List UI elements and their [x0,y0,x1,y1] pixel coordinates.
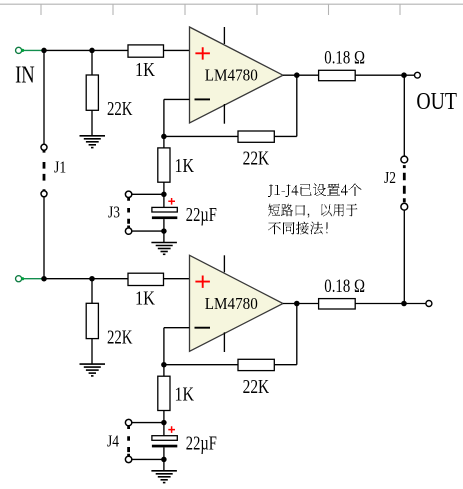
node op-amp output junction A [294,72,300,78]
svg-text:1K: 1K [135,287,155,309]
op-amp plus input marker (top) [195,47,210,59]
node cap bottom junction B [161,457,167,463]
svg-text:22K: 22K [243,376,270,398]
wire op-amp output to 0.18 ohm (bottom) [283,303,319,305]
wire cap node to ground (top) [163,231,165,242]
svg-text:22µF: 22µF [186,204,217,226]
wire feedback node to 1K (bottom) [163,365,165,377]
resistor 1K feedback-ground (top) [158,148,170,182]
jumper J2 top pin (open circle) [401,156,408,163]
svg-text:1K: 1K [135,59,155,81]
jumper J4 top pin (open circle) [125,419,131,425]
wire node INA to shunt node [44,49,92,51]
op-amp V+ power pin stub (top) [223,27,225,44]
capacitor 22uF polarity plus marker (bottom) [168,426,175,433]
op-amp LM4780 (bottom) body [190,255,284,351]
wire series resistor to op-amp +in (top) [164,49,190,51]
node shunt junction A [89,48,95,54]
resistor 22K feedback (top) [238,131,274,142]
wire feedback node to 1K (top) [163,136,165,148]
output terminal OUTB (open circle) [426,301,432,307]
output terminal OUTA (open circle) [415,72,421,78]
resistor 1K series input (bottom) [128,273,164,285]
wire feedback node to 22K feedback (top) [164,135,238,137]
resistor 22K input shunt (bottom) [86,303,98,338]
wire 0.18 ohm to output node (top) [355,74,404,76]
wire op-amp -in (bottom) [164,327,190,329]
wire shunt node to series resistor B [92,278,128,280]
ground symbol under input 22K (bottom) [80,364,106,376]
wire op-amp output to 0.18 ohm (top) [283,74,319,76]
wire cap to ground node (bottom) [163,447,165,459]
svg-text:0.18 Ω: 0.18 Ω [324,48,365,69]
wire -in down to feedback node (bottom) [163,328,165,365]
wire shunt node down to 22K (bottom) [91,279,93,304]
input terminal INA connection dot (green) [21,49,24,52]
node output junction OUTB [401,301,407,307]
svg-text:1K: 1K [175,383,195,405]
wire input terminal to node INA (green) [22,49,44,51]
capacitor 22uF negative plate (top) [152,216,177,219]
op-amp LM4780 (top) body [190,27,284,123]
wire -in down to feedback node (top) [163,99,165,136]
wire J4 bottom pin to ground node [132,458,162,460]
wire feedback riser to output node (bottom) [296,304,298,365]
svg-text:IN: IN [15,62,35,88]
svg-text:0.18 Ω: 0.18 Ω [324,276,365,297]
capacitor 22uF positive plate (top) [152,207,177,212]
jumper J1 top pin (open circle) [41,144,47,150]
capacitor 22uF positive plate (bottom) [152,436,177,441]
wire cap node to cap plate (top) [163,194,165,207]
node feedback junction A [161,134,167,140]
svg-text:J1: J1 [54,157,66,176]
node op-amp output junction B [294,301,300,307]
input terminal INB (green open circle) [16,276,22,282]
wire cap node to ground (bottom) [163,459,165,470]
ground symbol under input 22K (top) [80,136,106,148]
svg-text:1K: 1K [175,155,195,177]
wire 22K feedback to output riser (bottom) [274,364,297,366]
wire output node A down to J2 [403,75,405,156]
svg-text:J3: J3 [108,203,120,222]
svg-text:OUT: OUT [416,89,457,115]
op-amp V+ power pin stub (bottom) [223,255,225,272]
resistor 22K input shunt (top) [86,75,98,110]
svg-text:22K: 22K [107,326,133,348]
capacitor 22uF polarity plus marker (top) [168,198,175,205]
svg-text:LM4780: LM4780 [205,66,258,85]
svg-text:22K: 22K [243,148,270,170]
input terminal INB connection dot (green) [21,277,24,280]
node cap top junction B [161,420,167,426]
svg-text:22K: 22K [107,98,133,120]
wire shunt node to series resistor A [92,49,128,51]
wire J2 to output node B [403,210,405,303]
wire J1 to input node B [43,197,45,279]
ground symbol under 22uF (bottom) [151,471,177,483]
ground symbol under 22uF (top) [151,243,177,255]
jumper J1 bottom pin (open circle) [41,191,47,197]
op-amp minus input marker (top) [195,98,211,100]
wire feedback riser to output node (top) [296,75,298,136]
node output junction OUTA [401,72,407,78]
node cap top junction A [161,192,167,198]
wire feedback node to 22K feedback (bottom) [164,364,238,366]
op-amp V- power pin stub (top) [223,104,225,124]
svg-text:LM4780: LM4780 [205,294,258,313]
resistor 0.18 ohm output (bottom) [319,299,356,309]
annotation text line 1: J1-J4 yi shezhi 4 ge [268,184,362,198]
wire 1K to cap node (top) [163,182,165,194]
wire output node to terminal (bottom) [404,303,426,305]
wire J3 bottom pin to ground node [132,230,162,232]
wire 22K to ground (bottom) [91,339,93,365]
jumper J3 dashed link [127,198,130,228]
wire output node to terminal (top) [404,74,414,76]
resistor 1K series input (top) [128,45,164,57]
resistor 22K feedback (bottom) [238,359,274,370]
node INA junction (jumper branch) [41,48,47,54]
wire 1K to cap node (bottom) [163,411,165,423]
jumper J4 bottom pin (open circle) [125,456,131,462]
jumper J3 bottom pin (open circle) [125,228,131,234]
wire shunt node down to 22K (top) [91,51,93,76]
capacitor 22uF negative plate (bottom) [152,445,177,448]
wire J4 top pin to cap node [132,422,162,424]
wire 22K feedback to output riser (top) [274,135,297,137]
svg-text:22µF: 22µF [186,433,217,455]
wire input terminal to node INB (green) [22,278,44,280]
jumper J2 bottom pin (open circle) [401,203,408,210]
annotation text line 2: duanlukou, yi yongyu [268,204,357,218]
wire 0.18 ohm to output node (bottom) [355,303,404,305]
jumper J2 dashed link [403,165,406,202]
node cap bottom junction A [161,228,167,234]
spreadsheet grid line (top) [0,3,463,5]
jumper J1 dashed link [43,150,46,191]
wire cap to ground node (top) [163,219,165,231]
annotation text line 3: butong jiefa! [268,222,328,235]
op-amp V- power pin stub (bottom) [223,332,225,352]
resistor 1K feedback-ground (bottom) [158,376,170,410]
svg-text:J2: J2 [384,168,396,187]
wire node INB to shunt node [44,278,92,280]
jumper J4 dashed link [127,426,130,456]
jumper J3 top pin (open circle) [125,191,131,197]
resistor 0.18 ohm output (top) [319,70,356,80]
op-amp plus input marker (bottom) [195,276,210,288]
wire input node A down to J1 [43,50,45,144]
node INB junction (jumper branch) [41,276,47,282]
op-amp minus input marker (bottom) [195,327,211,329]
wire series resistor to op-amp +in (bottom) [164,278,190,280]
node shunt junction B [89,276,95,282]
wire op-amp -in (top) [164,98,190,100]
node feedback junction B [161,362,167,368]
svg-text:J4: J4 [107,431,119,450]
wire cap node to cap plate (bottom) [163,423,165,436]
wire J3 top pin to cap node [132,193,162,195]
wire 22K to ground (top) [91,110,93,136]
input terminal INA (green open circle) [16,47,22,53]
spreadsheet grid column ticks [41,4,400,15]
